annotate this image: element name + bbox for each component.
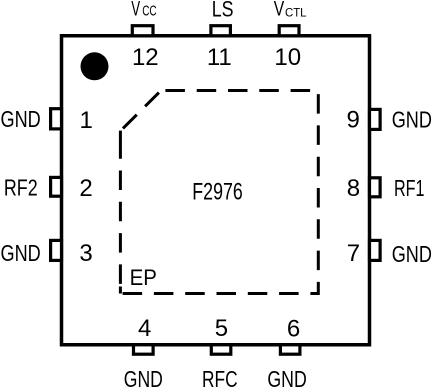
svg-text:GND: GND (1, 240, 41, 266)
svg-text:2: 2 (79, 175, 92, 202)
svg-text:LS: LS (212, 0, 234, 21)
svg-text:10: 10 (274, 44, 301, 71)
svg-text:6: 6 (287, 315, 300, 342)
svg-text:GND: GND (1, 106, 41, 132)
svg-text:V: V (131, 0, 140, 21)
svg-text:9: 9 (347, 106, 360, 133)
svg-text:GND: GND (124, 366, 163, 388)
svg-text:CTL: CTL (285, 6, 307, 20)
svg-text:CC: CC (142, 4, 157, 20)
svg-text:3: 3 (79, 240, 92, 267)
svg-text:GND: GND (392, 107, 432, 133)
svg-text:7: 7 (347, 240, 360, 267)
svg-text:8: 8 (347, 175, 360, 202)
svg-text:11: 11 (207, 44, 232, 71)
svg-text:F2976: F2976 (192, 179, 243, 206)
svg-text:V: V (274, 0, 285, 21)
svg-text:GND: GND (267, 366, 306, 388)
svg-text:RF1: RF1 (394, 175, 425, 201)
svg-text:GND: GND (392, 241, 432, 267)
svg-text:EP: EP (130, 265, 157, 290)
svg-text:RF2: RF2 (4, 175, 38, 201)
svg-text:12: 12 (132, 44, 159, 71)
svg-text:5: 5 (215, 315, 228, 342)
svg-text:4: 4 (138, 315, 151, 342)
svg-text:RFC: RFC (202, 366, 238, 388)
svg-text:1: 1 (80, 107, 93, 134)
